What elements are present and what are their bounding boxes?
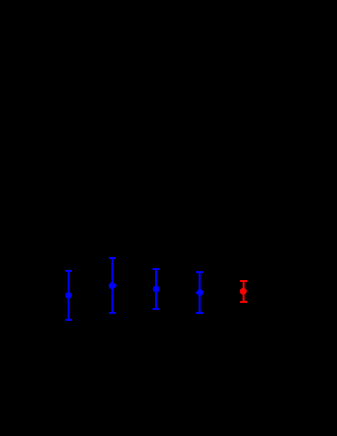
errorbar point 3 (blue) (153, 269, 160, 309)
errorbar point 1 (blue) (65, 271, 72, 320)
errorbar point 4 (blue) (196, 272, 203, 313)
errorbar point 5 (red) (240, 281, 247, 302)
errorbar point 2 (blue) (109, 258, 117, 313)
